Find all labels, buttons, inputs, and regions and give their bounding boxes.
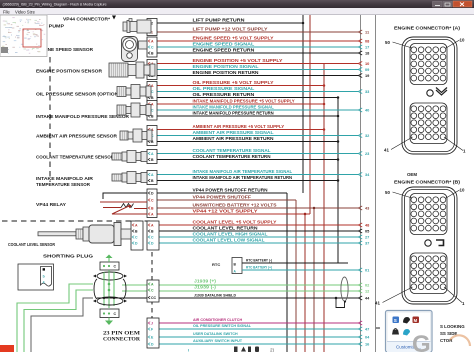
engine connector B outline [402,187,457,304]
wire J1939 (-) [122,290,358,292]
dashed boundary horizontal [2,220,150,222]
svg-text:SHORTING PLUG: SHORTING PLUG [43,254,94,259]
lift pump symbol [123,22,127,31]
engine speed sensor symbol [122,37,138,62]
wire RTC BATTERY (-) [242,262,348,264]
wire LIFT PUMP +12 VOLT SUPPLY [157,31,358,33]
svg-text:J1939 (+): J1939 (+) [194,279,217,284]
svg-text:RTC BATTERY (-): RTC BATTERY (-) [246,258,273,262]
wire ENGINE SPEED SIGNAL [157,46,358,48]
tray popup icon teal bird [403,329,410,336]
engine connector B key symbols [425,240,431,246]
wire J1939 (-) branch [24,290,93,352]
svg-text:COOLANT TEMPERATURE SENSOR: COOLANT TEMPERATURE SENSOR [36,155,115,160]
wire OIL PRESSURE SIGNAL [157,91,358,93]
wire shield branch [31,298,93,352]
svg-text:2): 2) [270,348,275,352]
svg-text:INTAKE MANIFOLD PRESSURE RETUR: INTAKE MANIFOLD PRESSURE RETURN [193,110,274,115]
window minimize button [433,2,443,8]
wire COOLANT TEMPERATURE SIGNAL [157,153,358,155]
dashed boundary vertical (OEM) [151,252,153,320]
sensor return bus wire [337,98,339,264]
shorting plug symbol [18,264,54,290]
svg-text:b: b [43,274,45,278]
wire RTC BATTERY (+) [242,269,358,271]
wire ENGINE POSITION +5 VOLT SUPPLY [157,63,358,65]
engine connector A key symbols [427,90,433,96]
ECM connector bar line 1 [360,15,362,352]
23 pin connector top arrow [106,255,113,259]
svg-text:RTC BATTERY (+): RTC BATTERY (+) [246,265,273,269]
svg-text:23 PIN OEM: 23 PIN OEM [103,330,140,336]
svg-text:S: S [394,318,397,323]
svg-text:(3666329)_ISB_23_Pin_Wiring_Di: (3666329)_ISB_23_Pin_Wiring_Diagram - Fl… [3,2,108,7]
svg-text:COOLANT TEMPERATURE RETURN: COOLANT TEMPERATURE RETURN [193,154,271,159]
junction dot vp44 supply [304,213,307,216]
svg-text:VP44 RELAY: VP44 RELAY [36,202,66,207]
svg-text:AMBIENT AIR PRESSURE +5 VOLT S: AMBIENT AIR PRESSURE +5 VOLT SUPPLY [193,124,285,129]
svg-text:4: 4 [43,280,45,284]
tray popup icon bag [392,330,399,335]
svg-text:INTAKE MANIFOLD AIR TEMPERATUR: INTAKE MANIFOLD AIR TEMPERATURE SIGNAL [193,169,293,174]
svg-text:AUXILIARY SWITCH INPUT: AUXILIARY SWITCH INPUT [193,338,243,343]
23 pin connector lower ring [97,297,123,305]
vp44 supply vertical wire [304,214,306,352]
svg-text:50: 50 [385,190,390,195]
junction dot unswitched battery [313,207,316,210]
wire INTAKE MANIFOLD PRESSURE +5 VOLT SUPPLY [157,103,324,105]
engine position pin block [147,60,157,80]
svg-text:Video Size: Video Size [15,9,36,14]
wire AMBIENT AIR PRESSURE +5 VOLT SUPPLY [157,129,324,131]
svg-text:ENGINE POSITION SIGNAL: ENGINE POSITION SIGNAL [193,64,259,69]
ECM connector bar line 2 [375,15,377,352]
svg-text:AMBIENT AIR PRESSURE RETURN: AMBIENT AIR PRESSURE RETURN [193,136,274,141]
engine connector B top pin field [410,194,447,235]
wire COOLANT LEVEL +5 VOLT SUPPLY [159,224,358,226]
svg-text:COOLANT LEVEL LOW SIGNAL: COOLANT LEVEL LOW SIGNAL [193,237,265,242]
intake manifold pressure pin block [147,101,157,121]
wire INTAKE MANIFOLD PRESSURE RETURN [157,115,338,117]
wire LIFT PUMP RETURN [157,22,303,24]
wire COOLANT LEVEL HIGH SIGNAL [159,236,358,238]
svg-text:AIR CONDITIONER CLUTCH: AIR CONDITIONER CLUTCH [193,317,242,322]
svg-text:J1939 DATALINK SHIELD: J1939 DATALINK SHIELD [194,292,236,297]
svg-text:ENGINE SPEED SIGNAL: ENGINE SPEED SIGNAL [193,41,255,46]
svg-text:47: 47 [365,327,369,332]
overview inset thumbnail [0,15,47,57]
svg-text:ENGINE POSITION +5 VOLT SUPPLY: ENGINE POSITION +5 VOLT SUPPLY [193,58,283,63]
svg-text:COOLANT LEVEL +5 VOLT SUPPLY: COOLANT LEVEL +5 VOLT SUPPLY [193,219,277,224]
wire VP44 +12 VOLT SUPPLY [157,213,310,215]
svg-text:ENGINE POSITION RETURN: ENGINE POSITION RETURN [193,70,259,75]
power shutoff vertical wire [295,200,297,352]
svg-text:COOLANT LEVEL SENSOR: COOLANT LEVEL SENSOR [8,242,56,247]
wire COOLANT TEMPERATURE RETURN [157,159,338,161]
svg-text:INTAKE MANIFOLD AIR TEMPERATUR: INTAKE MANIFOLD AIR TEMPERATURE RETURN [193,175,293,180]
svg-text:AMBIENT AIR PRESSURE SIGNAL: AMBIENT AIR PRESSURE SIGNAL [193,130,274,135]
tray popup icon bird [403,317,410,324]
wire J1939 (+) [122,284,358,286]
svg-text:INTAKE MANIFOLD PRESSURE SIGNA: INTAKE MANIFOLD PRESSURE SIGNAL [193,104,275,109]
return bus wire (lift pump return) [302,15,304,193]
23 pin connector bottom arrow [108,318,110,321]
svg-text:COOLANT LEVEL HIGH SIGNAL: COOLANT LEVEL HIGH SIGNAL [193,231,268,236]
wire OIL PRESSURE +5 VOLT SUPPLY [157,85,324,87]
svg-text:LIFT PUMP RETURN: LIFT PUMP RETURN [193,17,245,22]
wire AUXILIARY SWITCH INPUT [159,343,358,345]
window title bar [0,0,474,8]
engine speed pin block [147,37,157,57]
wire UNSWITCHED BATTERY +12 VOLTS [157,207,358,209]
wire J1939 (+) branch [17,284,93,352]
engine connector A outline [402,37,457,154]
engine connector A bottom pin field [410,103,447,144]
taskbar red icon [0,345,14,352]
intake air temperature pin block [147,171,157,185]
svg-text:AMBIENT AIR PRESSURE SENSOR: AMBIENT AIR PRESSURE SENSOR [36,134,118,139]
RTC battery block [232,258,242,274]
svg-text:50: 50 [385,40,390,45]
wire OIL PRESSURE RETURN [157,97,338,99]
svg-text:40: 40 [365,108,369,113]
wire AIR CONDITIONER CLUTCH [159,322,358,324]
svg-text:37: 37 [365,241,369,246]
engine connector B bottom pin field [410,253,447,294]
coolant temperature pin block [147,150,157,164]
svg-text:UNSWITCHED BATTERY +12 VOLTS: UNSWITCHED BATTERY +12 VOLTS [193,202,277,207]
svg-text:TEMPERATURE SENSOR: TEMPERATURE SENSOR [36,182,91,187]
svg-text:OIL PRESSURE SENSOR (OPTION): OIL PRESSURE SENSOR (OPTION) [36,92,121,97]
oem datalink pin block [147,280,159,302]
dashed boundary vertical (VP44) [49,57,51,182]
+12V bus wire [309,15,311,214]
23 pin connector top block [100,262,119,270]
window close button [453,1,472,7]
coolant temperature sensor symbol [112,153,122,160]
svg-text:ENGINE SPEED +5 VOLT SUPPLY: ENGINE SPEED +5 VOLT SUPPLY [193,35,274,40]
svg-text:OIL PRESSURE +5 VOLT SUPPLY: OIL PRESSURE +5 VOLT SUPPLY [193,80,274,85]
svg-text:OIL PRESSURE RETURN: OIL PRESSURE RETURN [193,92,255,97]
wire INTAKE MANIFOLD AIR TEMPERATURE RETURN [157,180,338,182]
svg-text:ENGINE CONNECTOR* (B): ENGINE CONNECTOR* (B) [394,180,461,185]
wire ENGINE SPEED RETURN [157,52,358,54]
svg-text:27: 27 [365,235,369,240]
wire INTAKE MANIFOLD AIR TEMPERATURE SIGNAL [157,174,358,176]
svg-text:**: ** [376,327,380,333]
svg-text:INTAKE MANIFOLD AIR: INTAKE MANIFOLD AIR [36,176,94,181]
engine connector A top pin field [410,44,447,85]
23 pin connector bottom block [100,309,119,318]
svg-text:ENGINE POSITION SENSOR: ENGINE POSITION SENSOR [36,69,103,74]
J1939 shield loop [341,277,348,301]
tray popup icon blue [393,317,400,324]
svg-text:J1939 (-): J1939 (-) [194,285,217,290]
engine position sensor symbol [109,63,128,77]
svg-text:G: G [412,331,431,352]
wire ENGINE POSITION RETURN [157,75,358,77]
svg-text:COOLANT LEVEL RETURN: COOLANT LEVEL RETURN [193,225,258,230]
svg-text:ENGINE CONNECTOR* (A): ENGINE CONNECTOR* (A) [394,26,461,31]
svg-text:17: 17 [365,45,369,50]
wire COOLANT LEVEL RETURN [159,230,358,232]
svg-text:CONNECTOR: CONNECTOR [103,337,140,343]
svg-text:CC: CC [151,296,157,300]
wire ENGINE SPEED +5 VOLT SUPPLY [157,40,358,42]
ambient air pressure pin block [147,126,157,146]
tray popup window [386,311,433,352]
power shutoff return vertical wire [286,193,288,352]
ambient air pressure sensor symbol [120,131,128,140]
wire ENGINE POSITION SIGNAL [157,69,358,71]
J1939 shield pigtail [336,298,345,308]
svg-text:VP44 POWER SHUTOFF RETURN: VP44 POWER SHUTOFF RETURN [193,187,268,192]
svg-text:VP44 POWER SHUTOFF: VP44 POWER SHUTOFF [193,194,252,199]
wire J1939 DATALINK SHIELD [97,297,358,299]
oem switch pin block [147,318,159,348]
oil pressure sensor symbol [117,87,126,97]
svg-text:USER DATALINK SWITCH: USER DATALINK SWITCH [193,331,238,336]
oil pressure pin block [147,82,157,102]
coolant level pin block 1 [131,221,143,250]
svg-text:41: 41 [384,148,389,153]
svg-text:File: File [3,9,10,14]
svg-text:J: J [151,322,153,326]
wire USER DATALINK SWITCH [159,336,358,338]
wire AMBIENT AIR PRESSURE RETURN [157,141,338,143]
svg-text:S LOOKING: S LOOKING [440,324,465,329]
lift pump pin block [147,19,157,36]
wire AMBIENT AIR PRESSURE SIGNAL [157,135,358,137]
23 pin connector body [94,279,97,299]
svg-text:OIL PRESSURE SWITCH SIGNAL: OIL PRESSURE SWITCH SIGNAL [193,323,252,328]
23 pin connector upper ring [97,272,123,280]
+5V supply bus wire [323,64,325,352]
svg-text:RTC: RTC [212,262,220,267]
vp44 relay pin block [147,189,157,218]
tray popup customize strip [387,342,431,352]
wire VP44 POWER SHUTOFF RETURN [157,192,287,194]
svg-text:10: 10 [460,188,465,193]
svg-text:10: 10 [460,38,465,43]
svg-text:l: l [188,348,189,352]
wire INTAKE MANIFOLD PRESSURE SIGNAL [157,109,358,111]
svg-text:OIL PRESSURE SIGNAL: OIL PRESSURE SIGNAL [193,86,255,91]
vp44 relay symbol [103,193,147,199]
unswitched battery vertical wire [313,208,315,352]
svg-text:M: M [414,318,418,323]
svg-text:VP44 +12 VOLT SUPPLY: VP44 +12 VOLT SUPPLY [193,208,258,213]
intake manifold pressure sensor symbol [117,105,126,115]
intake air temperature sensor symbol [112,174,122,181]
tray popup icon red [413,317,420,324]
svg-text:10: 10 [365,61,369,66]
menu bar [0,8,474,15]
svg-text:LIFT PUMP +12 VOLT SUPPLY: LIFT PUMP +12 VOLT SUPPLY [193,26,268,31]
svg-text:VP44 CONNECTOR*: VP44 CONNECTOR* [63,16,110,21]
window maximize button [443,2,452,8]
coolant level pin block 2 [147,221,159,250]
coolant level sensor symbol [38,232,76,236]
svg-text:INTAKE MANIFOLD PRESSURE +5 VO: INTAKE MANIFOLD PRESSURE +5 VOLT SUPPLY [193,98,295,103]
svg-text:OEM: OEM [407,172,417,177]
svg-text:COOLANT TEMPERATURE SIGNAL: COOLANT TEMPERATURE SIGNAL [193,148,271,153]
wire VP44 POWER SHUTOFF [157,199,296,201]
svg-text:41: 41 [375,301,380,306]
svg-text:ENGINE SPEED RETURN: ENGINE SPEED RETURN [193,47,255,52]
wire OIL PRESSURE SWITCH SIGNAL [159,328,358,330]
wire COOLANT LEVEL LOW SIGNAL [159,242,358,244]
